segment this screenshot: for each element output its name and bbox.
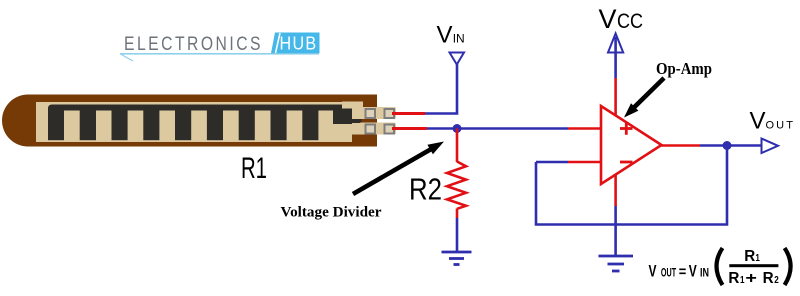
op-amp - pin mark bbox=[620, 161, 633, 164]
wire top pin to Vin (blue part) bbox=[425, 64, 457, 114]
wire R2 to ground blue bbox=[456, 218, 459, 251]
svg-text:R: R bbox=[744, 248, 755, 265]
wire op-amp bottom red bbox=[614, 170, 617, 206]
top pin channel bbox=[352, 108, 362, 120]
comb teeth bbox=[48, 108, 318, 140]
top tongue bbox=[342, 102, 363, 109]
svg-text:R2: R2 bbox=[409, 173, 442, 207]
svg-text:IN: IN bbox=[453, 32, 465, 46]
terminal Vout arrow bbox=[762, 139, 779, 154]
svg-text:CC: CC bbox=[617, 10, 643, 33]
wire junction down to R2 bbox=[456, 129, 459, 163]
svg-text:V: V bbox=[437, 22, 453, 49]
terminal Vcc arrow bbox=[608, 34, 623, 53]
svg-text:+: + bbox=[745, 270, 757, 287]
wire node to op-amp blue segment bbox=[427, 127, 568, 130]
wire op-amp output red bbox=[661, 144, 700, 147]
wire into op-amp + input red segment bbox=[568, 127, 601, 130]
op-amp U1 bbox=[601, 106, 662, 184]
svg-text:R: R bbox=[763, 270, 774, 287]
wire op-amp bottom blue to ground bbox=[614, 206, 617, 255]
svg-text:1: 1 bbox=[755, 252, 760, 264]
terminal Vin arrow bbox=[450, 53, 465, 65]
svg-text:IN: IN bbox=[700, 265, 709, 279]
trace blob to bottom pin bbox=[333, 109, 362, 125]
wire top pin to Vin (red part) bbox=[392, 112, 425, 115]
label Vout bbox=[750, 108, 796, 135]
wire op-amp output blue bbox=[700, 144, 761, 147]
svg-text:HUB: HUB bbox=[280, 33, 318, 54]
wire Vcc blue bbox=[614, 37, 617, 78]
top contact pin bbox=[359, 107, 396, 119]
svg-text:R: R bbox=[728, 270, 739, 287]
comb backbone bbox=[48, 105, 348, 111]
arrow voltage divider pointer bbox=[353, 142, 444, 195]
svg-text:OUT: OUT bbox=[766, 120, 796, 132]
resistor R2 bbox=[447, 162, 466, 209]
wire R2 to ground red bbox=[456, 209, 459, 219]
bottom contact pin bbox=[359, 123, 396, 135]
svg-text:1: 1 bbox=[740, 274, 745, 286]
svg-text:V: V bbox=[599, 4, 617, 34]
arrow op-amp pointer bbox=[624, 78, 664, 118]
wire feedback: minus input to bottom rail bbox=[568, 161, 601, 164]
label Vin bbox=[437, 22, 465, 49]
resistor R1 flex sensor body bbox=[2, 95, 396, 147]
svg-text:V: V bbox=[750, 108, 766, 135]
wire bottom pin red segment bbox=[392, 127, 427, 130]
formula Vout = Vin (R1/(R1+R2)) bbox=[649, 248, 791, 287]
label Vcc bbox=[599, 4, 644, 34]
op-amp + pin mark bbox=[620, 122, 633, 135]
svg-text:R1: R1 bbox=[241, 152, 267, 185]
svg-text:Voltage Divider: Voltage Divider bbox=[281, 205, 382, 221]
svg-text:ELECTRONICS: ELECTRONICS bbox=[124, 34, 263, 55]
svg-text:Op-Amp: Op-Amp bbox=[656, 59, 712, 78]
svg-text:2: 2 bbox=[774, 274, 779, 286]
ground under op-amp bbox=[599, 256, 634, 271]
node voltage divider junction bbox=[453, 124, 462, 133]
wire Vcc red into op-amp bbox=[614, 78, 617, 120]
ground under R2 bbox=[442, 252, 472, 265]
logo ELECTRONICS HUB bbox=[120, 33, 320, 62]
svg-text:OUT: OUT bbox=[661, 265, 677, 279]
bottom pin channel bbox=[352, 123, 362, 135]
svg-text:=: = bbox=[679, 264, 687, 281]
svg-text:V: V bbox=[649, 262, 657, 280]
svg-text:V: V bbox=[689, 262, 697, 280]
bottom tongue bbox=[333, 124, 363, 135]
node output junction bbox=[723, 141, 732, 150]
